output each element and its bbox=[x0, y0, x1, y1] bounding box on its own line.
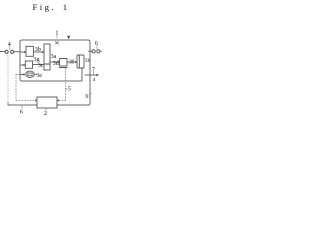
arrow bus to 3c block bbox=[20, 64, 24, 66]
leader of 4 bbox=[9, 47, 11, 50]
svg-text:Fig.: Fig. bbox=[33, 2, 57, 12]
divider of 3h bbox=[78, 55, 80, 68]
svg-text:6: 6 bbox=[20, 108, 23, 115]
left input bus vertical bbox=[19, 42, 21, 79]
output wire border to terminal bbox=[89, 50, 93, 52]
bus bottom corner bbox=[20, 79, 22, 81]
terminal circle right bbox=[11, 50, 14, 53]
dashed link from 3e leftward bbox=[16, 74, 20, 76]
leader tick of right border 6 bbox=[89, 94, 91, 96]
svg-text:2: 2 bbox=[44, 110, 47, 117]
output stub bbox=[100, 50, 101, 52]
stub wire right of 3e bbox=[34, 74, 36, 76]
enclosure top-left corner bbox=[20, 40, 22, 42]
svg-text:6: 6 bbox=[85, 94, 88, 100]
block 3h bbox=[77, 55, 84, 68]
dashed link down left side bbox=[15, 75, 17, 101]
long wire y81 to 3h bbox=[22, 80, 82, 82]
svg-text:4: 4 bbox=[8, 42, 11, 48]
dashed corner to bottom line bbox=[7, 103, 9, 105]
leader of 2 bbox=[45, 108, 47, 110]
enclosure top-right corner bbox=[88, 40, 90, 42]
enclosure 1 right border bbox=[89, 42, 91, 103]
oval block 3e bbox=[26, 71, 34, 77]
bottom chassis line right of block 2 bbox=[57, 104, 88, 106]
left dashed drop to chassis bbox=[7, 56, 9, 104]
terminal circle left bbox=[5, 50, 8, 53]
svg-text:6: 6 bbox=[95, 41, 98, 47]
enclosure bottom-right corner bbox=[88, 103, 90, 105]
leader of 7 bbox=[93, 72, 95, 74]
dashed link to block 2 right bbox=[59, 100, 66, 102]
block 3d bbox=[60, 59, 68, 67]
svg-text:3d: 3d bbox=[53, 60, 60, 67]
wire 3d to 3h bbox=[67, 61, 75, 63]
divider of 3a bbox=[44, 63, 50, 65]
arrow bus to 3b bbox=[20, 51, 24, 53]
svg-text:5: 5 bbox=[68, 87, 71, 93]
svg-text:3e: 3e bbox=[36, 72, 42, 79]
bottom chassis line left of block 2 bbox=[8, 104, 37, 106]
wire terminal to bus bbox=[14, 51, 20, 53]
wire 3h bottom drop bbox=[81, 68, 83, 81]
input terminal 4 wire from edge bbox=[0, 51, 5, 53]
underline of 3d block bbox=[60, 67, 68, 69]
leader of 6 bbox=[96, 46, 98, 50]
dashed link from 3d down bbox=[65, 69, 67, 101]
output terminal circle left bbox=[92, 50, 95, 53]
wire 3b to 3a bbox=[34, 51, 43, 53]
block 3a tall bbox=[44, 44, 50, 70]
leader of bottom label 6 bbox=[21, 106, 23, 108]
inner rect of 3e bbox=[28, 73, 32, 76]
leader of 1 bbox=[56, 35, 58, 39]
leader of 5 bbox=[66, 88, 68, 90]
block 3g/3c bbox=[25, 61, 32, 68]
x mark under line bbox=[56, 42, 59, 45]
svg-text:1: 1 bbox=[63, 2, 67, 12]
output terminal circle right bbox=[97, 50, 100, 53]
svg-text:4: 4 bbox=[93, 78, 96, 83]
block 3b bbox=[26, 46, 33, 56]
dashed link to block 2 left bbox=[16, 100, 35, 102]
external arrow 7 bbox=[85, 74, 97, 76]
arrowhead on top border bbox=[67, 36, 70, 40]
block 2 bbox=[37, 97, 57, 108]
wire 3a to 3d bbox=[50, 61, 58, 63]
enclosure 1 top border bbox=[22, 39, 88, 41]
svg-text:3c: 3c bbox=[38, 62, 44, 69]
arrow bus to 3e bbox=[20, 74, 24, 76]
svg-text:3h: 3h bbox=[85, 58, 91, 64]
wire 3c block to 3a bottom cell bbox=[33, 64, 44, 66]
